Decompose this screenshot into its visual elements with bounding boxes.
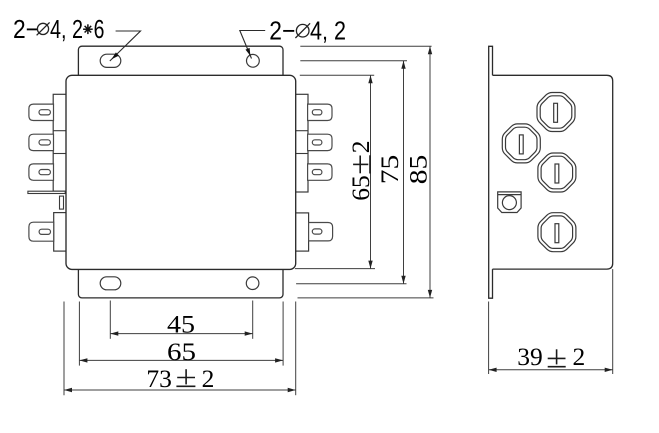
svg-text:39: 39 — [517, 342, 543, 371]
svg-text:2: 2 — [573, 342, 586, 371]
svg-text:2−: 2− — [13, 14, 39, 44]
svg-text:73: 73 — [146, 364, 172, 393]
svg-text:2: 2 — [346, 141, 375, 154]
svg-text:65: 65 — [167, 337, 196, 366]
svg-text:4, 2: 4, 2 — [50, 14, 83, 44]
svg-text:6: 6 — [94, 14, 105, 44]
svg-text:4, 2: 4, 2 — [310, 15, 346, 45]
svg-text:75: 75 — [375, 155, 404, 185]
svg-text:2: 2 — [202, 364, 215, 393]
svg-text:45: 45 — [167, 310, 195, 339]
svg-text:85: 85 — [404, 155, 433, 185]
svg-text:65: 65 — [346, 175, 375, 201]
svg-text:2−: 2− — [269, 15, 295, 45]
